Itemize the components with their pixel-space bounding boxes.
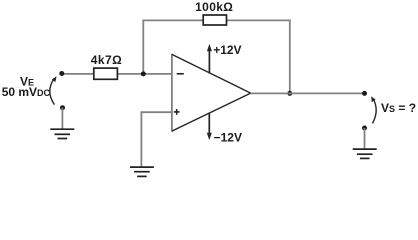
node: output terminal Vs top bbox=[362, 91, 367, 96]
source VE arc arrow bbox=[50, 76, 57, 104]
svg-text:4k7Ω: 4k7Ω bbox=[91, 53, 122, 67]
svg-text:50 mVDC: 50 mVDC bbox=[2, 85, 51, 99]
node: Vs bottom terminal bbox=[362, 126, 367, 131]
wire: non-inverting input horizontal bbox=[141, 111, 172, 113]
+12V supply arrow bbox=[207, 44, 212, 74]
wire: source bottom terminal to ground bbox=[61, 108, 63, 129]
wire: op-amp output bbox=[251, 92, 365, 94]
svg-text:100kΩ: 100kΩ bbox=[195, 0, 233, 14]
node: inverting input junction bbox=[141, 71, 146, 76]
svg-text:−12V: −12V bbox=[214, 130, 242, 144]
wire: resistor 4k7 to inverting input bbox=[117, 73, 172, 75]
wire: source top terminal to resistor 4k7 bbox=[62, 73, 95, 75]
node: source top terminal bbox=[59, 71, 64, 76]
resistor 100kΩ bbox=[203, 15, 226, 25]
-12V supply arrow bbox=[207, 113, 212, 141]
wire: feedback top right segment bbox=[226, 19, 291, 21]
wire: feedback top left segment bbox=[142, 19, 203, 21]
resistor 4k7Ω bbox=[94, 68, 118, 79]
ground (non-inverting input) bbox=[130, 167, 154, 176]
svg-text:VS = ?: VS = ? bbox=[381, 101, 416, 115]
wire: feedback left vertical bbox=[142, 20, 144, 74]
svg-text:+12V: +12V bbox=[213, 43, 241, 57]
wire: Vs bottom terminal to ground bbox=[364, 128, 366, 149]
Vs measurement arc arrow bbox=[371, 96, 376, 123]
wire: feedback right vertical bbox=[289, 20, 291, 94]
op-amp bbox=[172, 54, 251, 132]
ground (output) bbox=[353, 149, 377, 158]
node: source bottom terminal bbox=[60, 105, 65, 110]
wire: non-inverting input vertical to ground bbox=[140, 111, 142, 167]
node: feedback/output junction bbox=[287, 91, 292, 96]
ground (source) bbox=[50, 129, 74, 138]
